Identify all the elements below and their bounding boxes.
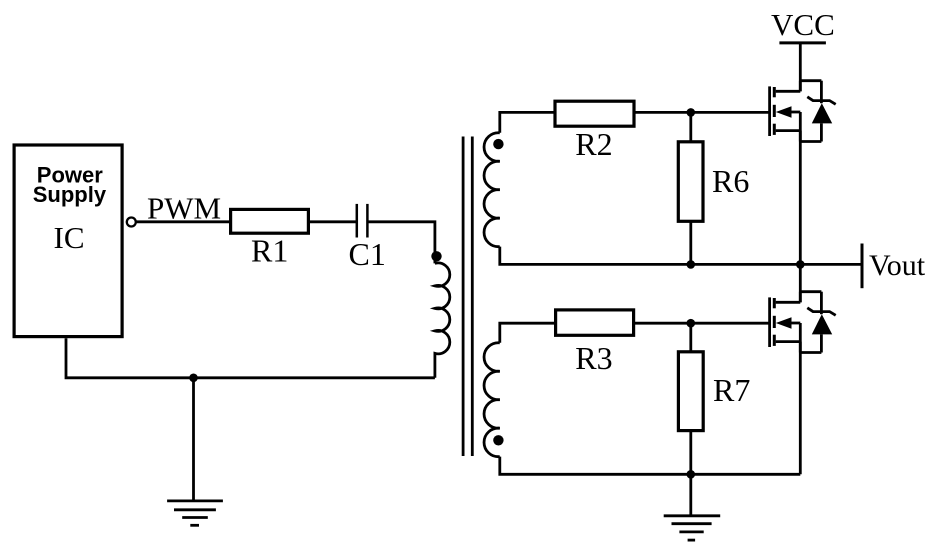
wire R1 to C1	[310, 220, 357, 223]
node junction R6 bottom / Vout wire	[687, 260, 696, 269]
wire to right ground	[689, 474, 692, 516]
resistor R2	[555, 101, 634, 126]
node junction gate Q1 / R6 top	[687, 108, 696, 117]
svg-text:R6: R6	[712, 163, 749, 199]
resistor R7	[678, 352, 703, 431]
wire PWM output	[136, 220, 230, 223]
svg-text:IC: IC	[54, 220, 85, 255]
svg-text:Vout: Vout	[869, 249, 926, 282]
wire top secondary to gate of Q1	[500, 112, 770, 132]
power VCC rail	[771, 7, 835, 43]
polarity dot top secondary	[493, 139, 503, 149]
wire bottom secondary to gate of Q2	[500, 323, 770, 343]
resistor R3	[556, 310, 634, 335]
transistor Q2 N-MOSFET low side	[770, 292, 836, 353]
svg-text:Supply: Supply	[33, 182, 107, 207]
IC U1 Power Supply IC	[14, 145, 122, 337]
wire C1 to transformer primary	[367, 222, 435, 264]
svg-text:R2: R2	[575, 126, 612, 162]
transformer T1 top secondary winding	[484, 133, 500, 247]
polarity dot primary	[431, 251, 441, 261]
wire to left ground	[192, 378, 195, 501]
wire R7 branch	[689, 323, 692, 474]
ground left	[167, 501, 223, 525]
resistor R6	[678, 142, 703, 222]
ground right	[664, 516, 721, 540]
wire source of Q2 to rail	[799, 342, 802, 475]
wire bottom secondary rail	[500, 457, 801, 475]
svg-text:VCC: VCC	[771, 7, 835, 42]
wire top secondary bottom to Vout	[500, 247, 862, 265]
svg-text:C1: C1	[349, 236, 386, 272]
resistor R1	[231, 209, 309, 233]
polarity dot bottom secondary	[493, 435, 503, 445]
wire R6 branch	[689, 112, 692, 264]
wire Vout node to drain of Q2	[799, 264, 802, 302]
terminal PWM output pin	[127, 218, 136, 227]
svg-text:PWM: PWM	[147, 190, 221, 225]
wire source of Q1 to Vout node	[799, 131, 802, 265]
svg-text:R3: R3	[575, 340, 612, 376]
transformer T1 primary winding	[435, 263, 450, 378]
transformer T1 bottom secondary winding	[484, 343, 500, 457]
node Vout junction source Q1 / drain Q2	[796, 260, 805, 269]
node junction bottom rail / ground	[687, 470, 696, 479]
wire VCC to drain of Q1	[799, 43, 802, 91]
svg-text:R1: R1	[251, 233, 288, 269]
svg-text:R7: R7	[713, 372, 750, 408]
node junction gate Q2 / R7 top	[687, 319, 696, 328]
transistor Q1 N-MOSFET high side	[770, 81, 836, 142]
node junction primary return / ground	[189, 374, 198, 383]
terminal Vout	[862, 244, 926, 289]
transformer T1 core	[463, 137, 472, 457]
capacitor C1	[357, 204, 368, 238]
wire primary return to ground rail	[66, 338, 435, 378]
